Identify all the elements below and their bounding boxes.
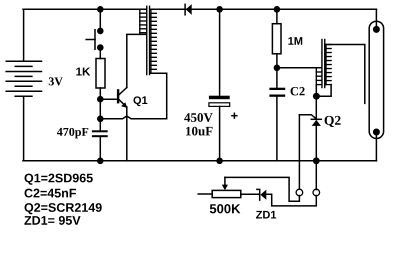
node top rail / 450V cap <box>216 6 223 13</box>
parts list line 1 <box>25 174 93 185</box>
wire Q2 gate down to trigger terminal <box>298 115 300 190</box>
node 470pF at bottom rail <box>97 158 104 165</box>
node Q2 at bottom rail <box>313 157 320 164</box>
terminal circle right <box>313 189 320 196</box>
label 10uF <box>186 127 213 136</box>
wire feedback from base node to T1 secondary bottom with hop <box>100 73 166 119</box>
transformer T2 secondary winding <box>326 45 331 85</box>
wire battery positive lead <box>23 9 25 61</box>
wire battery negative lead <box>23 96 25 161</box>
wire bottom rail <box>23 160 376 162</box>
label 3V <box>49 77 63 85</box>
diode D1 <box>185 4 192 15</box>
node base junction <box>97 96 104 103</box>
node top rail / 1M <box>274 6 281 13</box>
wire tube bottom electrode to bottom rail <box>375 132 377 161</box>
transformer T1 core <box>147 6 150 74</box>
transformer T2 core <box>322 40 325 88</box>
wire bottom rail to right terminal <box>315 161 317 190</box>
wire 470pF to bottom rail <box>99 137 101 161</box>
wire ZD1 to right terminal <box>266 194 316 206</box>
transistor Q1 <box>117 88 128 109</box>
resistor 1M <box>272 24 281 54</box>
zener diode ZD1 <box>257 189 266 200</box>
wire 500K left stub <box>198 193 212 195</box>
parts list line 2 <box>25 189 76 198</box>
tube envelope <box>369 21 383 138</box>
wire junction to Q2 <box>315 96 317 119</box>
battery 3V plates <box>6 61 41 96</box>
wire top rail right segment <box>151 8 377 10</box>
label Q1 <box>133 96 147 106</box>
wire Q1 collector up to T1 primary <box>127 34 146 87</box>
wire switch lower lead <box>99 48 101 59</box>
wire base node to Q1 base <box>100 98 117 100</box>
wire 1M bottom lead <box>276 54 278 68</box>
electrode top <box>373 26 380 33</box>
wire switch upper lead <box>99 9 101 31</box>
capacitor C1 450V 10uF electrolytic <box>209 96 230 107</box>
node 450V cap at bottom rail <box>216 158 223 165</box>
parts list line 4 <box>24 216 80 225</box>
resistor 1K <box>96 59 105 89</box>
potentiometer wiper arrow <box>222 177 228 190</box>
switch S1 pushbutton <box>86 28 103 51</box>
thyristor Q2 <box>299 115 321 126</box>
label ZD1 <box>256 211 276 219</box>
wire T2 secondary bottom to junction node <box>316 85 331 97</box>
node T2 autotransformer junction <box>313 93 320 100</box>
wire Q2 to bottom rail <box>315 126 317 161</box>
wire 500K right to ZD1 <box>241 193 259 195</box>
transformer T2 primary winding <box>316 68 321 85</box>
wire 1K to base node <box>99 88 101 99</box>
node 1M / C2 / T2 junction <box>274 65 281 72</box>
wire T2 primary bottom to junction node <box>315 85 317 97</box>
label 500K <box>210 204 241 213</box>
wire top rail left segment <box>23 8 146 10</box>
wire T2 secondary top to trigger electrode <box>326 45 365 104</box>
capacitor 470pF <box>92 130 108 137</box>
wire C2 bottom lead <box>276 97 278 161</box>
node feedback junction <box>97 116 104 123</box>
terminal circle left <box>296 189 303 196</box>
label Q2 <box>325 116 341 127</box>
label 1M <box>288 37 302 45</box>
label 1K <box>76 68 90 76</box>
wire C2 top lead <box>276 68 278 88</box>
wire 1M top lead <box>276 9 278 23</box>
transformer T1 primary winding <box>140 9 146 34</box>
wire junction to T2 primary <box>277 67 322 69</box>
parts list line 3 <box>25 203 102 214</box>
wire 450V cap top lead <box>219 9 221 95</box>
potentiometer 500K body <box>212 190 241 197</box>
wire wiper to left terminal <box>225 177 300 201</box>
label plus polarity <box>232 113 237 118</box>
electrode bottom <box>373 129 380 136</box>
wire base node down to 470pF <box>99 99 101 130</box>
node junction top rail / switch <box>97 6 104 13</box>
wire 450V cap bottom lead <box>219 106 221 160</box>
wire Q1 emitter down to bottom rail <box>126 107 128 161</box>
wire top rail down to tube top electrode <box>375 9 377 29</box>
transformer T1 secondary winding <box>151 9 156 73</box>
label C2 <box>291 87 305 95</box>
label 450V <box>184 113 213 122</box>
label 470pF <box>57 128 88 139</box>
capacitor C2 <box>269 88 285 97</box>
